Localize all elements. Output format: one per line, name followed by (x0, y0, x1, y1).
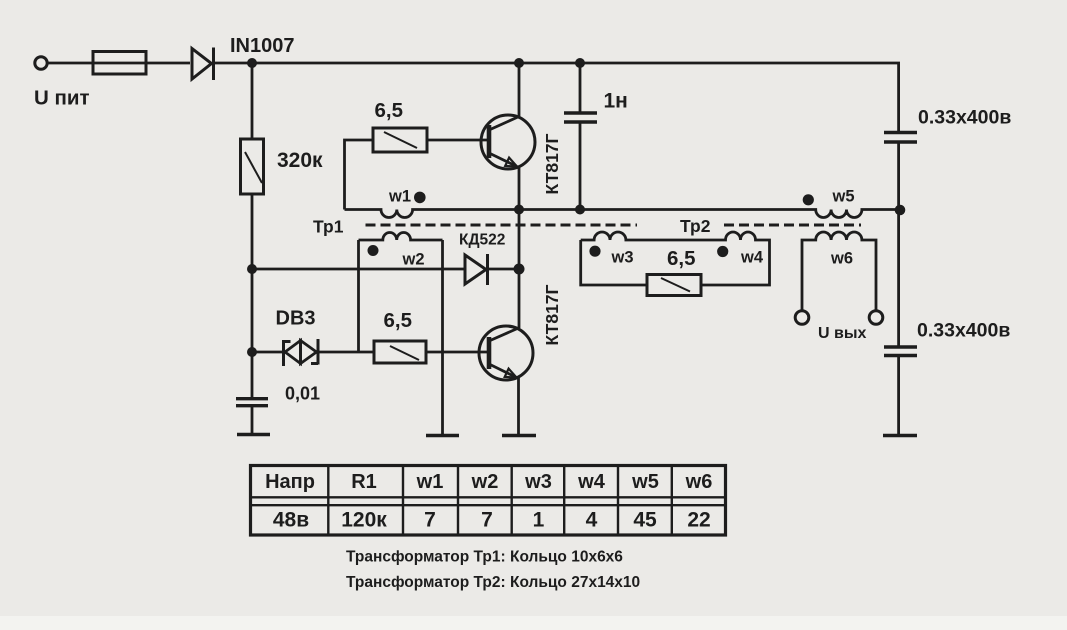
svg-text:КТ817Г: КТ817Г (542, 133, 562, 194)
fuse FU1 (93, 52, 190, 75)
svg-text:120к: 120к (341, 509, 387, 532)
output terminal left (795, 311, 809, 325)
diode VD2 КД522 (465, 254, 488, 285)
wire left rail to diac (252, 351, 283, 354)
wire top bus down to R1 (251, 63, 254, 139)
junction node (left rail / DB3 wire) (247, 347, 257, 357)
svg-text:R1: R1 (351, 471, 377, 493)
svg-text:7: 7 (481, 509, 493, 532)
svg-text:Напр: Напр (265, 471, 315, 493)
core dashed line Тр1 (366, 224, 638, 227)
wire R3 left down to w1 (345, 140, 374, 210)
svg-text:7: 7 (424, 509, 436, 532)
wire VT2 emitter to ground (517, 378, 520, 435)
wire left rail to VD2 (252, 268, 465, 271)
svg-text:w5: w5 (631, 471, 659, 493)
wire diac to R2 (318, 351, 374, 354)
resistor R1 320к (241, 139, 264, 194)
svg-text:320к: 320к (277, 149, 323, 172)
svg-text:45: 45 (633, 509, 657, 532)
resistor R4 6,5 (Тр2 loop) (647, 275, 701, 296)
top bus wire (214, 62, 901, 65)
svg-text:Трансформатор Тр1: Кольцо 10х6: Трансформатор Тр1: Кольцо 10х6х6 (346, 549, 623, 566)
wire R3 to Q1 base (427, 139, 488, 142)
svg-text:0,01: 0,01 (285, 384, 320, 404)
svg-text:Тр1: Тр1 (313, 217, 344, 237)
svg-text:КД522: КД522 (459, 232, 505, 249)
resistor R2 6,5 (lower) (374, 341, 426, 363)
phasing dot w5 (803, 194, 814, 205)
svg-text:6,5: 6,5 (375, 99, 404, 122)
diode VD1 IN1007 (192, 48, 214, 81)
wire VT1 emitter down to VT2 collector (518, 167, 521, 329)
table value row (273, 509, 711, 532)
table header row (265, 471, 712, 493)
svg-text:4: 4 (586, 509, 598, 532)
core dashed line Тр2 (724, 224, 861, 227)
phasing dot w2 (368, 245, 379, 256)
wire R1 down left rail (251, 194, 254, 398)
transformer Тр1 winding w2 box (359, 233, 443, 435)
junction node (emitter bus / C 1н) (575, 205, 585, 215)
svg-text:1н: 1н (604, 90, 628, 113)
winding w6 with output leads (802, 232, 876, 310)
transistor VT1 КТ817Г (481, 115, 535, 169)
svg-text:w1: w1 (388, 188, 411, 206)
junction node (Q1 collector) (514, 58, 524, 68)
wire cap to ground (251, 407, 254, 433)
ground (VT2 emitter) (502, 434, 536, 437)
svg-text:0.33x400в: 0.33x400в (917, 320, 1010, 342)
svg-text:22: 22 (687, 509, 710, 532)
right rail top segment (897, 63, 900, 132)
right rail middle segment (897, 143, 900, 347)
svg-text:6,5: 6,5 (667, 247, 696, 270)
capacitor C 1н (564, 63, 597, 210)
svg-text:w5: w5 (832, 188, 855, 206)
svg-text:w4: w4 (577, 471, 606, 493)
resistor R3 6,5 (upper) (373, 128, 427, 152)
junction node (midpoint / VD2) (514, 264, 525, 275)
svg-text:1: 1 (533, 509, 545, 532)
right rail bottom segment (897, 357, 900, 435)
wire VT1 collector (518, 63, 521, 117)
ground (left) (237, 433, 270, 436)
junction node (emitter bus / Q1-Q2) (514, 205, 524, 215)
svg-text:Тр2: Тр2 (680, 216, 711, 236)
ground (center, below w2 box) (426, 434, 459, 437)
svg-text:w1: w1 (416, 471, 444, 493)
junction node A (top of R1) (247, 58, 257, 68)
svg-text:U пит: U пит (34, 87, 90, 110)
svg-text:w2: w2 (402, 251, 425, 269)
transformer Тр2 loop w3/w4 with resistor (581, 232, 770, 285)
diac DB3 (284, 339, 319, 366)
ground (right rail) (883, 434, 917, 437)
phasing dot w1 (414, 192, 426, 204)
svg-text:Трансформатор Тр2: Кольцо 27х1: Трансформатор Тр2: Кольцо 27х14х10 (346, 574, 640, 591)
svg-text:IN1007: IN1007 (230, 35, 295, 57)
svg-text:КТ817Г: КТ817Г (542, 284, 562, 345)
capacitor C 0.33x400в (lower) (884, 347, 917, 356)
svg-text:U вых: U вых (818, 325, 867, 342)
capacitor 0,01 (236, 399, 268, 406)
svg-text:w3: w3 (611, 249, 634, 267)
svg-text:6,5: 6,5 (384, 309, 413, 332)
input terminal U пит (35, 57, 47, 69)
junction node (emitter bus / right rail) (895, 205, 906, 216)
junction node (left rail / КД522 wire) (247, 264, 257, 274)
wire VD2 to midpoint rail (488, 268, 520, 271)
svg-text:0.33x400в: 0.33x400в (918, 107, 1011, 129)
svg-text:DB3: DB3 (276, 308, 316, 330)
wire R2 to Q2 base (426, 351, 488, 354)
winding table frame (251, 466, 726, 536)
phasing dot w3 (589, 246, 600, 257)
phasing dot w4 (717, 246, 728, 257)
output terminal right (869, 311, 883, 325)
junction node (C 1н top) (575, 58, 585, 68)
capacitor C 0.33x400в (upper) (884, 133, 917, 143)
svg-text:w3: w3 (524, 471, 552, 493)
emitter bus wire with w1 and w5 (345, 210, 901, 218)
svg-text:w2: w2 (471, 471, 499, 493)
transistor VT2 КТ817Г (479, 326, 533, 380)
svg-text:48в: 48в (273, 509, 309, 532)
wire terminal to fuse (49, 62, 94, 65)
svg-text:w6: w6 (830, 250, 853, 268)
svg-text:w6: w6 (685, 471, 713, 493)
svg-text:w4: w4 (740, 249, 764, 267)
